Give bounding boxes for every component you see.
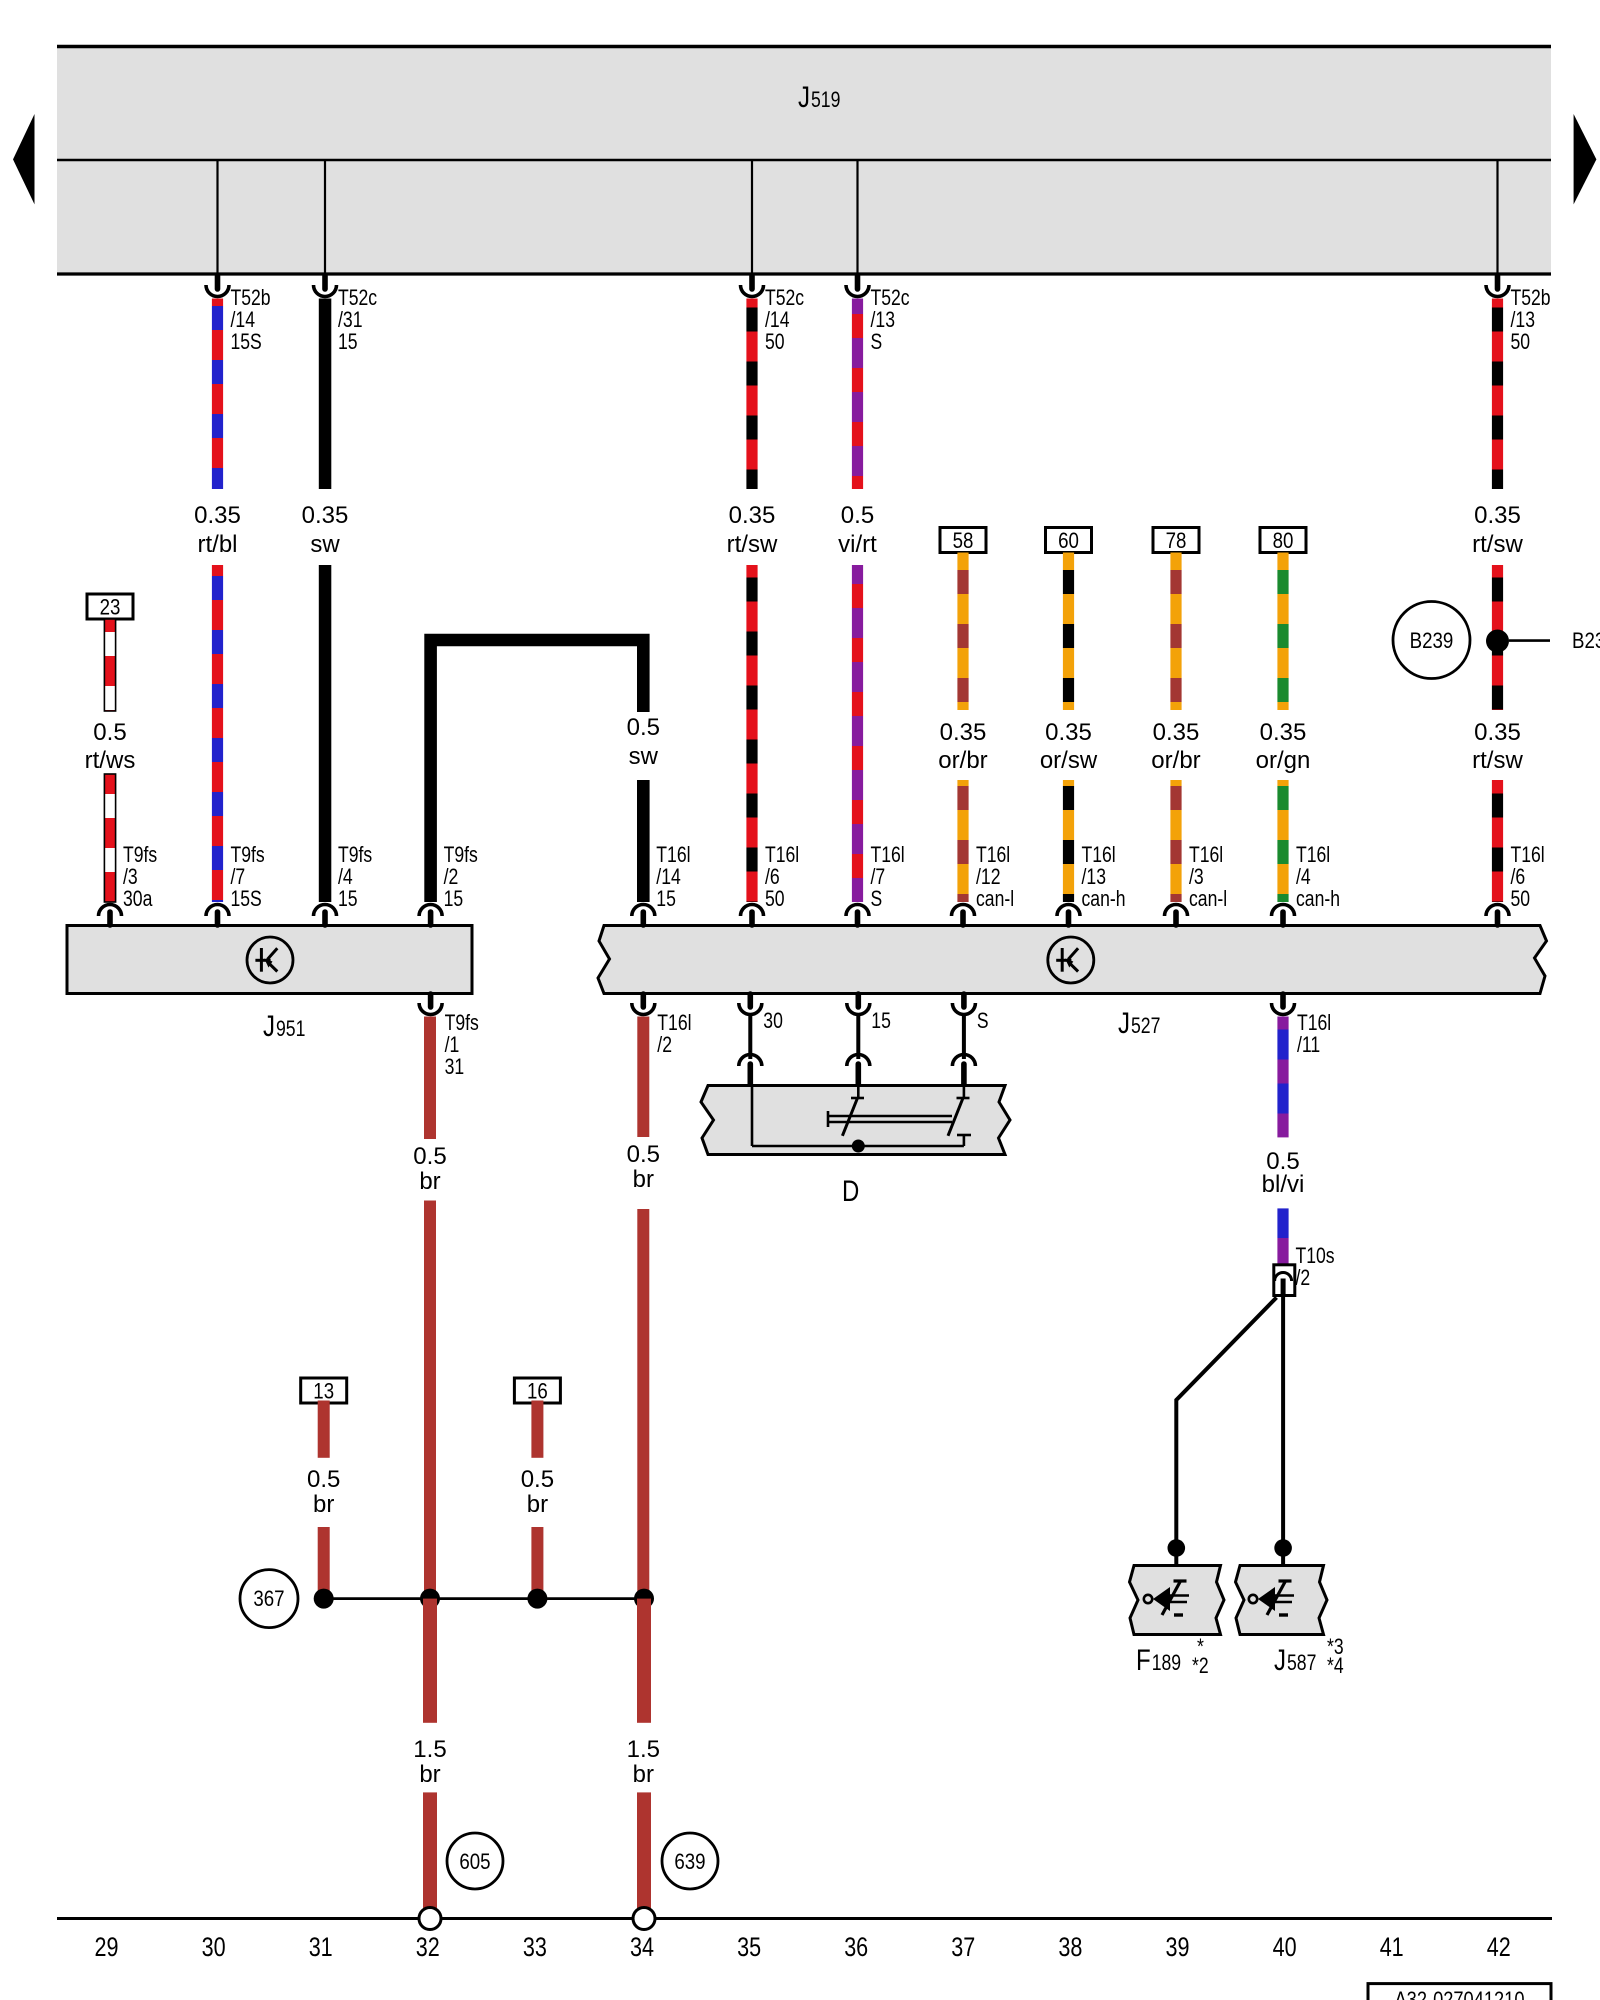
wire 0.5 br (box 13) — [318, 1401, 330, 1458]
connector T16l/11 — [1280, 994, 1286, 1007]
svg-text:J: J — [1274, 1644, 1286, 1677]
connector (D side) — [739, 1055, 762, 1067]
wire 0.5 vi/rt (T52c/13 to T16l/7) — [852, 299, 863, 490]
svg-text:30: 30 — [202, 1932, 226, 1962]
junction — [314, 1589, 334, 1609]
wire 0.5 br (T16l/2 down) — [637, 1017, 649, 1138]
diagram number box A32-027041210 — [1368, 1984, 1551, 2000]
svg-text:15S: 15S — [231, 886, 262, 911]
svg-text:rt/sw: rt/sw — [727, 531, 778, 558]
svg-text:80: 80 — [1273, 528, 1294, 553]
svg-text:bl/vi: bl/vi — [1262, 1171, 1305, 1198]
svg-text:29: 29 — [95, 1932, 119, 1962]
svg-text:31: 31 — [445, 1054, 465, 1079]
svg-text:can-h: can-h — [1082, 886, 1126, 911]
wire — [1277, 780, 1288, 902]
svg-text:rt/sw: rt/sw — [1472, 747, 1523, 774]
connector T16l/13 pin can-h — [1066, 912, 1072, 925]
svg-text:can-h: can-h — [1296, 886, 1340, 911]
svg-text:38: 38 — [1058, 1932, 1082, 1962]
wire (inside J519) — [216, 160, 218, 274]
connector T16l/2 — [640, 994, 646, 1007]
connector T10s/2 box — [1274, 1265, 1295, 1296]
switch symbol F189 — [1144, 1595, 1152, 1603]
continuation arrow left — [13, 114, 35, 204]
svg-text:78: 78 — [1166, 528, 1187, 553]
svg-text:0.5: 0.5 — [521, 1466, 554, 1493]
control unit J951 box — [67, 926, 472, 994]
wire (inside J519) — [856, 160, 858, 274]
junction — [634, 1589, 654, 1609]
svg-text:S: S — [871, 329, 883, 354]
connector T16l/4 pin can-h — [1280, 912, 1286, 925]
svg-text:0.35: 0.35 — [302, 502, 349, 529]
svg-text:31: 31 — [309, 1932, 333, 1962]
wire — [531, 1527, 543, 1599]
connector T16l/6 pin 50 — [1495, 912, 1501, 925]
svg-text:0.5: 0.5 — [627, 714, 660, 741]
node box 60 — [1046, 528, 1092, 553]
node box 58 — [940, 528, 986, 553]
node box 80 — [1260, 528, 1306, 553]
svg-text:42: 42 — [1487, 1932, 1511, 1962]
svg-text:32: 32 — [416, 1932, 440, 1962]
svg-text:15: 15 — [444, 886, 464, 911]
svg-text:37: 37 — [951, 1932, 975, 1962]
wire — [957, 780, 968, 902]
svg-text:1.5: 1.5 — [627, 1736, 660, 1763]
svg-text:/11: /11 — [1297, 1032, 1320, 1057]
svg-text:br: br — [313, 1491, 334, 1518]
wire — [1277, 1208, 1288, 1238]
svg-text:br: br — [633, 1166, 654, 1193]
svg-text:34: 34 — [630, 1932, 654, 1962]
connector T52b/14 pin 15S — [215, 276, 221, 289]
wire — [212, 565, 223, 902]
svg-text:639: 639 — [674, 1849, 705, 1874]
ground 639 reference circle — [662, 1833, 718, 1889]
connector T52c/14 pin 50 — [749, 276, 755, 289]
svg-text:50: 50 — [1511, 329, 1531, 354]
connector T52c/31 pin 15 — [322, 276, 328, 289]
svg-text:sw: sw — [629, 743, 659, 770]
wire 0.5 br (T9fs/1 down) — [424, 1017, 436, 1140]
wire 0.5 br (box 16) — [531, 1401, 543, 1458]
svg-text:J: J — [263, 1010, 275, 1043]
svg-text:15: 15 — [338, 329, 358, 354]
wire 1.5 br (to ground) — [637, 1599, 651, 1723]
svg-text:br: br — [633, 1761, 654, 1788]
svg-text:35: 35 — [737, 1932, 761, 1962]
node box 78 — [1153, 528, 1199, 553]
svg-text:0.5: 0.5 — [93, 719, 126, 746]
connector T9fs/4 pin 15 — [322, 912, 328, 925]
svg-text:0.5: 0.5 — [307, 1466, 340, 1493]
node B239 tap dot — [1486, 630, 1509, 653]
svg-text:br: br — [527, 1491, 548, 1518]
wire 1.5 br (to ground) — [423, 1599, 437, 1723]
connector T16l/14 pin 15 — [640, 912, 646, 925]
connector (D side) — [847, 1055, 870, 1067]
wire — [104, 774, 115, 902]
svg-text:605: 605 — [459, 1849, 490, 1874]
connector pair to ignition switch, terminal 15 — [855, 994, 861, 1007]
svg-text:*2: *2 — [1192, 1653, 1209, 1678]
svg-text:rt/ws: rt/ws — [85, 747, 136, 774]
connector T16l/3 pin can-l — [1173, 912, 1179, 925]
node box 13 — [301, 1378, 347, 1403]
wire — [1492, 780, 1503, 902]
wire (inside J519) — [1496, 160, 1498, 274]
svg-text:*4: *4 — [1327, 1653, 1344, 1678]
svg-text:0.5: 0.5 — [627, 1141, 660, 1168]
svg-text:30a: 30a — [123, 886, 153, 911]
svg-text:0.35: 0.35 — [1153, 719, 1200, 746]
connector T16l/7 pin S — [855, 912, 861, 925]
svg-text:/2: /2 — [1296, 1265, 1311, 1290]
svg-text:0.5: 0.5 — [413, 1143, 446, 1170]
svg-text:0.35: 0.35 — [194, 502, 241, 529]
svg-text:D: D — [842, 1175, 859, 1208]
ground connection 639 — [633, 1908, 655, 1930]
wire — [852, 565, 863, 902]
svg-text:15: 15 — [871, 1008, 891, 1033]
connector T16l/6 pin 50 — [749, 912, 755, 925]
svg-text:367: 367 — [253, 1586, 284, 1611]
wire — [637, 1209, 649, 1599]
ignition switch internals — [751, 1086, 754, 1147]
svg-text:or/br: or/br — [938, 747, 987, 774]
wire 0.35 rt/sw (T52b/13 to T16l/6) — [1492, 299, 1503, 490]
wire ground bus 367 — [324, 1597, 644, 1600]
wire — [423, 1792, 437, 1908]
wire — [318, 1527, 330, 1599]
connector T52c/13 pin S — [855, 276, 861, 289]
svg-text:58: 58 — [953, 528, 974, 553]
wire 0.35 sw (T52c/31 to T9fs/4) — [319, 299, 332, 490]
svg-text:1.5: 1.5 — [413, 1736, 446, 1763]
svg-text:sw: sw — [310, 531, 340, 558]
svg-text:rt/sw: rt/sw — [1472, 531, 1523, 558]
svg-text:527: 527 — [1131, 1013, 1160, 1038]
wire 0.35 or/br (box 78 down) — [1170, 553, 1181, 711]
junction dot at F189 — [1168, 1539, 1186, 1557]
connector pair to ignition switch, terminal S — [961, 994, 967, 1007]
svg-text:13: 13 — [313, 1379, 334, 1404]
svg-text:15: 15 — [338, 886, 358, 911]
svg-text:F: F — [1136, 1644, 1151, 1677]
svg-text:br: br — [419, 1168, 440, 1195]
svg-text:0.35: 0.35 — [1260, 719, 1307, 746]
wire — [424, 1201, 436, 1599]
svg-text:J: J — [1118, 1007, 1130, 1040]
wire — [637, 780, 650, 902]
svg-text:40: 40 — [1273, 1932, 1297, 1962]
svg-text:0.35: 0.35 — [1474, 719, 1521, 746]
svg-text:50: 50 — [765, 329, 785, 354]
wire — [856, 1016, 860, 1060]
wire — [1063, 780, 1074, 902]
wire (inside J519) — [751, 160, 753, 274]
svg-text:519: 519 — [811, 87, 840, 112]
wire to B239 — [1509, 639, 1550, 642]
wire 0.35 rt/bl (T52b/14 to T9fs/7) — [212, 299, 223, 490]
switch D (ignition/starter switch) box, torn edges — [701, 1086, 1010, 1155]
svg-text:0.35: 0.35 — [1474, 502, 1521, 529]
svg-text:0.35: 0.35 — [1045, 719, 1092, 746]
continuation arrow right — [1574, 114, 1597, 204]
svg-text:0.35: 0.35 — [729, 502, 776, 529]
connector (D side) — [952, 1055, 975, 1067]
switch F189 (door contact) box — [1130, 1566, 1225, 1635]
svg-text:/2: /2 — [657, 1032, 672, 1057]
svg-text:br: br — [419, 1761, 440, 1788]
node 367 reference circle — [240, 1570, 298, 1628]
svg-text:vi/rt: vi/rt — [838, 531, 877, 558]
wire — [962, 1016, 966, 1060]
svg-text:587: 587 — [1287, 1650, 1316, 1675]
connector T9fs/3 pin 30a — [107, 912, 113, 925]
connector T9fs/1 pin 31 — [428, 994, 434, 1007]
wire T10s/2 to J587 — [1281, 1296, 1285, 1549]
node box 16 — [514, 1378, 560, 1403]
svg-text:60: 60 — [1058, 528, 1079, 553]
svg-text:0.35: 0.35 — [940, 719, 987, 746]
wire — [746, 565, 757, 902]
svg-text:S: S — [871, 886, 883, 911]
svg-text:J: J — [798, 81, 810, 114]
svg-text:0.5: 0.5 — [841, 502, 874, 529]
junction — [420, 1589, 440, 1609]
svg-text:189: 189 — [1152, 1650, 1181, 1675]
connector T52b/13 pin 50 — [1495, 276, 1501, 289]
svg-text:15: 15 — [656, 886, 676, 911]
wire — [748, 1016, 752, 1060]
ground connection 605 — [419, 1908, 441, 1930]
wire — [1492, 565, 1503, 710]
wire — [319, 565, 332, 902]
connector T16l/12 pin can-l — [960, 912, 966, 925]
connector T9fs/2 pin 15 — [428, 912, 434, 925]
svg-text:951: 951 — [276, 1016, 305, 1041]
control unit J519 (onboard supply) box — [57, 45, 1551, 275]
bottom track rail — [57, 1917, 1552, 1920]
gateway symbol in J951 — [247, 937, 293, 983]
wire 0.5 sw (T9fs/2 to T16l/14), n-shape — [431, 640, 644, 902]
node box 23 — [87, 594, 133, 619]
svg-text:or/gn: or/gn — [1256, 747, 1311, 774]
wire 0.5 bl/vi (T16l/11 to T10s/2) — [1277, 1017, 1288, 1138]
svg-text:B239: B239 — [1572, 628, 1600, 653]
wire T10s/2 to F189 (diagonal) — [1176, 1298, 1276, 1549]
svg-text:B239: B239 — [1410, 628, 1454, 653]
control unit J527 box (steering column electronics), torn edges — [598, 926, 1547, 994]
svg-text:30: 30 — [763, 1008, 783, 1033]
wire — [637, 1792, 651, 1908]
svg-text:rt/bl: rt/bl — [198, 531, 238, 558]
svg-text:23: 23 — [100, 595, 121, 620]
switch symbol J587 — [1249, 1595, 1257, 1603]
svg-text:50: 50 — [765, 886, 785, 911]
svg-text:36: 36 — [844, 1932, 868, 1962]
junction dot at J587 — [1274, 1539, 1292, 1557]
relay J587 box — [1236, 1566, 1328, 1635]
svg-text:A32-027041210: A32-027041210 — [1395, 1987, 1525, 2000]
wire 0.5 rt/ws (box 23 to T9fs/3) — [104, 619, 115, 711]
gateway symbol in J527 — [1048, 937, 1094, 983]
wire 0.35 rt/sw (T52c/14 to T16l/6) — [746, 299, 757, 490]
svg-text:15S: 15S — [231, 329, 262, 354]
wire 0.35 or/gn (box 80 down) — [1277, 553, 1288, 711]
svg-text:50: 50 — [1511, 886, 1531, 911]
svg-text:41: 41 — [1380, 1932, 1404, 1962]
wire 0.35 or/br (box 58 down) — [957, 553, 968, 711]
svg-text:16: 16 — [527, 1379, 548, 1404]
component B239 reference circle — [1393, 602, 1470, 679]
ground 605 reference circle — [447, 1833, 503, 1889]
connector T9fs/7 pin 15S — [215, 912, 221, 925]
wire — [1170, 780, 1181, 902]
wire 0.35 or/sw (box 60 down) — [1063, 553, 1074, 711]
svg-text:39: 39 — [1166, 1932, 1190, 1962]
connector pair to ignition switch, terminal 30 — [747, 994, 753, 1007]
svg-text:can-l: can-l — [976, 886, 1014, 911]
svg-text:can-l: can-l — [1189, 886, 1227, 911]
svg-text:S: S — [977, 1008, 989, 1033]
wire (inside J519) — [324, 160, 326, 274]
svg-text:or/sw: or/sw — [1040, 747, 1098, 774]
svg-text:33: 33 — [523, 1932, 547, 1962]
junction — [527, 1589, 547, 1609]
svg-text:or/br: or/br — [1151, 747, 1200, 774]
